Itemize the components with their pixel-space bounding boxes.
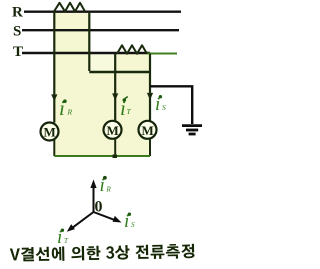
caption text: V결선에 의한 3상 전류측정 xyxy=(10,244,195,262)
wire phase line T green right segment xyxy=(147,53,177,55)
svg-text:R: R xyxy=(67,108,73,117)
junction stub below bus xyxy=(113,155,118,159)
svg-text:S: S xyxy=(162,103,166,112)
transformer CT1 box right edge wire xyxy=(88,12,90,72)
transformer CT1 winding on line R xyxy=(54,3,85,12)
current arrow i_R on wire 1 xyxy=(51,94,57,101)
wire M2 to bus xyxy=(114,139,116,157)
vector diagram arrow i_R up xyxy=(90,180,96,213)
current arrow i_T on wire 2 xyxy=(112,93,118,100)
transformer CT2 winding on line T xyxy=(117,45,147,54)
svg-text:M: M xyxy=(142,123,154,138)
wire phase line S xyxy=(22,29,179,31)
wire bottom bus xyxy=(54,155,150,157)
svg-text:M: M xyxy=(107,123,119,138)
wire ground branch xyxy=(150,86,192,124)
label i_R xyxy=(59,96,73,120)
label i_T xyxy=(120,96,132,120)
wire M1 to bus xyxy=(53,140,55,157)
ground symbol xyxy=(182,126,202,134)
svg-text:R: R xyxy=(12,5,23,21)
meter M3 xyxy=(139,121,157,139)
wire phase line R xyxy=(24,10,181,12)
transformer CT1 box left edge / wire to meter M1 xyxy=(53,12,55,123)
vector diagram arrow i_T left-down xyxy=(67,212,94,232)
vector diagram arrow i_S right-down xyxy=(94,212,122,223)
vector diagram label i_S xyxy=(124,211,135,232)
wire M3 to bus xyxy=(149,139,151,157)
svg-text:R: R xyxy=(106,185,112,193)
svg-text:M: M xyxy=(44,125,56,140)
meter M1 xyxy=(41,123,59,141)
current arrow i_S on wire 3 xyxy=(147,93,153,100)
svg-text:S: S xyxy=(131,221,135,229)
wire phase line T xyxy=(22,52,150,54)
svg-text:T: T xyxy=(64,237,69,245)
meter M2 xyxy=(104,121,122,139)
transformer CT2 box left edge / wire to meter M2 xyxy=(114,54,116,122)
svg-text:T: T xyxy=(13,44,23,60)
vector diagram label i_T xyxy=(57,227,69,248)
svg-text:S: S xyxy=(13,24,21,40)
shaded CT box region fill xyxy=(54,12,151,157)
vector diagram label i_R xyxy=(100,175,112,196)
wire common bottom link y=72 xyxy=(89,71,150,73)
transformer CT2 box right edge / wire to meter M3 xyxy=(149,54,151,122)
label i_S xyxy=(155,94,166,115)
